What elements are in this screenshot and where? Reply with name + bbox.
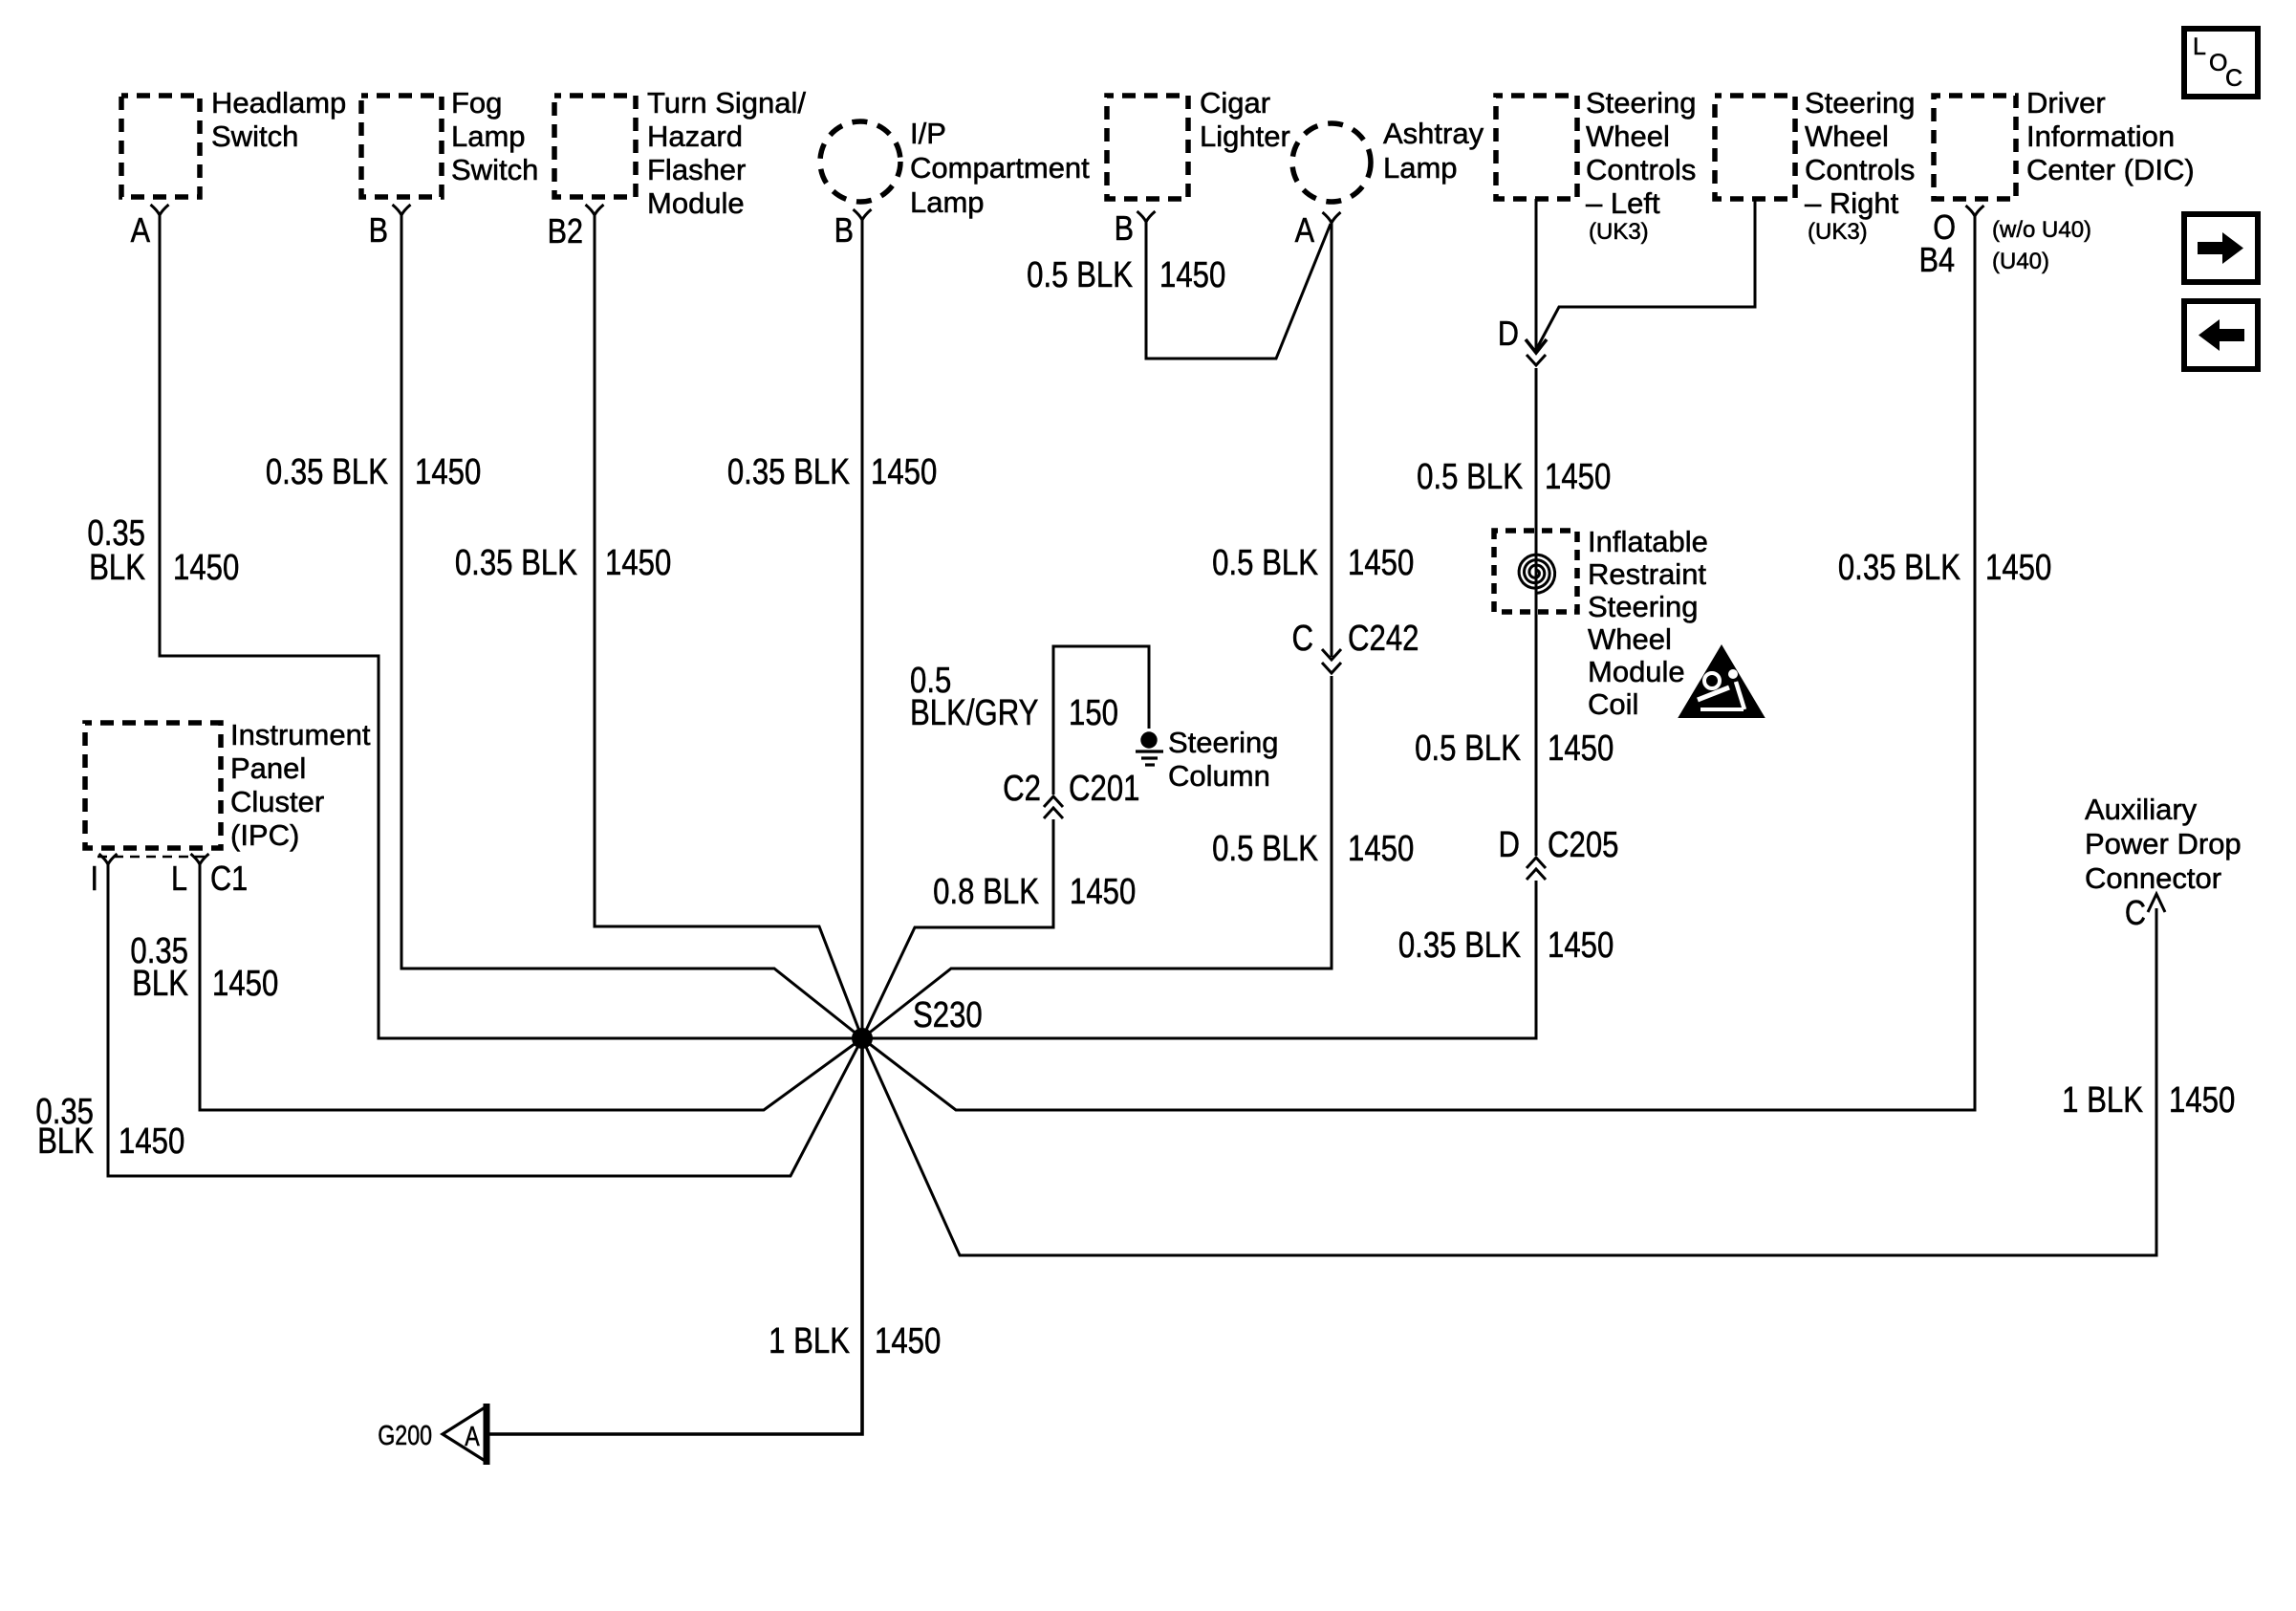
- svg-text:Driver: Driver: [2026, 86, 2106, 120]
- svg-text:1450: 1450: [212, 964, 278, 1004]
- svg-text:(UK3): (UK3): [1589, 219, 1649, 245]
- svg-text:Steering: Steering: [1168, 726, 1278, 759]
- svg-text:1450: 1450: [173, 548, 239, 588]
- svg-text:(IPC): (IPC): [230, 818, 299, 852]
- svg-text:Lamp: Lamp: [910, 185, 985, 219]
- svg-text:1450: 1450: [1545, 457, 1611, 497]
- svg-text:C1: C1: [210, 860, 248, 899]
- svg-text:0.35 BLK: 0.35 BLK: [1398, 925, 1521, 966]
- svg-text:L: L: [2193, 33, 2206, 60]
- svg-text:BLK: BLK: [37, 1121, 94, 1162]
- svg-text:Connector: Connector: [2085, 861, 2221, 895]
- svg-text:I/P: I/P: [910, 117, 946, 150]
- svg-text:Inflatable: Inflatable: [1588, 525, 1708, 558]
- svg-text:B: B: [834, 212, 854, 250]
- svg-text:150: 150: [1069, 693, 1118, 733]
- svg-text:Information: Information: [2026, 120, 2175, 153]
- svg-text:Lamp: Lamp: [451, 120, 526, 153]
- svg-text:A: A: [131, 212, 151, 250]
- svg-text:S230: S230: [913, 995, 983, 1035]
- svg-text:1450: 1450: [1548, 729, 1614, 769]
- svg-text:Controls: Controls: [1805, 153, 1915, 186]
- svg-text:1450: 1450: [871, 452, 937, 492]
- svg-text:Center (DIC): Center (DIC): [2026, 153, 2195, 186]
- svg-text:Hazard: Hazard: [647, 120, 743, 153]
- svg-text:Ashtray: Ashtray: [1383, 117, 1484, 150]
- svg-text:Cluster: Cluster: [230, 785, 324, 818]
- svg-text:Cigar: Cigar: [1200, 86, 1270, 120]
- svg-text:B: B: [369, 212, 388, 250]
- svg-text:0.5 BLK: 0.5 BLK: [1212, 829, 1318, 869]
- svg-text:1450: 1450: [415, 452, 481, 492]
- svg-text:A: A: [1295, 212, 1315, 250]
- svg-text:Steering: Steering: [1805, 86, 1915, 120]
- svg-text:0.5 BLK: 0.5 BLK: [1027, 255, 1133, 295]
- svg-text:C242: C242: [1348, 619, 1419, 659]
- svg-text:A: A: [465, 1420, 480, 1451]
- svg-text:Switch: Switch: [451, 153, 538, 186]
- svg-text:0.5 BLK: 0.5 BLK: [1415, 729, 1521, 769]
- svg-text:Restraint: Restraint: [1588, 557, 1706, 591]
- svg-text:Module: Module: [647, 186, 745, 220]
- svg-text:Turn Signal/: Turn Signal/: [647, 86, 806, 120]
- svg-text:0.35 BLK: 0.35 BLK: [266, 452, 388, 492]
- svg-text:BLK/GRY: BLK/GRY: [910, 693, 1038, 733]
- svg-text:(U40): (U40): [1992, 249, 2049, 274]
- svg-text:1450: 1450: [1348, 543, 1414, 583]
- svg-text:(w/o U40): (w/o U40): [1992, 217, 2091, 243]
- svg-text:C205: C205: [1548, 825, 1618, 865]
- svg-text:Wheel: Wheel: [1588, 622, 1672, 656]
- svg-text:Switch: Switch: [211, 120, 298, 153]
- svg-text:0.35 BLK: 0.35 BLK: [1838, 548, 1960, 588]
- svg-text:1 BLK: 1 BLK: [769, 1321, 850, 1361]
- svg-text:1450: 1450: [1348, 829, 1414, 869]
- svg-text:Compartment: Compartment: [910, 151, 1090, 185]
- svg-text:C: C: [1291, 619, 1313, 659]
- svg-text:0.35 BLK: 0.35 BLK: [455, 543, 577, 583]
- svg-text:B4: B4: [1919, 242, 1955, 280]
- svg-text:1450: 1450: [1548, 925, 1614, 966]
- svg-text:BLK: BLK: [132, 964, 188, 1004]
- svg-text:1450: 1450: [119, 1121, 184, 1162]
- svg-text:Module: Module: [1588, 655, 1685, 688]
- svg-text:L: L: [171, 860, 187, 899]
- svg-text:Coil: Coil: [1588, 687, 1638, 721]
- svg-text:0.35 BLK: 0.35 BLK: [727, 452, 850, 492]
- svg-text:Headlamp: Headlamp: [211, 86, 346, 120]
- svg-text:C2: C2: [1003, 769, 1041, 809]
- svg-text:Steering: Steering: [1586, 86, 1696, 120]
- svg-text:1 BLK: 1 BLK: [2062, 1080, 2143, 1121]
- svg-text:D: D: [1498, 316, 1519, 354]
- svg-text:1450: 1450: [1159, 255, 1225, 295]
- svg-text:Wheel: Wheel: [1586, 120, 1670, 153]
- svg-text:Lamp: Lamp: [1383, 151, 1458, 185]
- svg-text:1450: 1450: [2169, 1080, 2235, 1121]
- svg-text:B2: B2: [548, 213, 583, 251]
- svg-text:Wheel: Wheel: [1805, 120, 1889, 153]
- svg-text:C: C: [2125, 895, 2146, 933]
- svg-text:Panel: Panel: [230, 751, 306, 785]
- svg-text:Flasher: Flasher: [647, 153, 746, 186]
- svg-text:(UK3): (UK3): [1808, 219, 1868, 245]
- svg-text:0.5 BLK: 0.5 BLK: [1417, 457, 1523, 497]
- svg-text:0.8 BLK: 0.8 BLK: [933, 872, 1039, 912]
- svg-text:Auxiliary: Auxiliary: [2085, 793, 2198, 826]
- svg-text:Controls: Controls: [1586, 153, 1696, 186]
- svg-text:D: D: [1498, 825, 1520, 865]
- svg-text:– Right: – Right: [1805, 186, 1899, 220]
- svg-text:Instrument: Instrument: [230, 718, 371, 751]
- svg-text:1450: 1450: [1985, 548, 2051, 588]
- svg-text:– Left: – Left: [1586, 186, 1660, 220]
- svg-text:Fog: Fog: [451, 86, 502, 120]
- svg-text:G200: G200: [378, 1419, 432, 1450]
- svg-text:Steering: Steering: [1588, 590, 1698, 623]
- svg-text:Power Drop: Power Drop: [2085, 827, 2242, 860]
- svg-text:BLK: BLK: [89, 548, 145, 588]
- svg-text:C: C: [2225, 65, 2242, 92]
- svg-text:1450: 1450: [875, 1321, 941, 1361]
- svg-text:C201: C201: [1069, 769, 1139, 809]
- svg-text:0.5 BLK: 0.5 BLK: [1212, 543, 1318, 583]
- svg-text:Column: Column: [1168, 759, 1270, 793]
- svg-text:I: I: [90, 860, 98, 899]
- svg-text:B: B: [1115, 210, 1134, 249]
- svg-text:1450: 1450: [1070, 872, 1136, 912]
- svg-text:Lighter: Lighter: [1200, 120, 1290, 153]
- svg-text:1450: 1450: [605, 543, 671, 583]
